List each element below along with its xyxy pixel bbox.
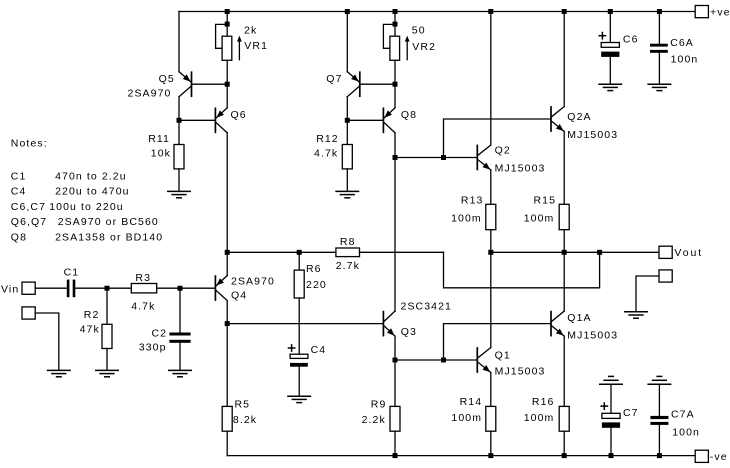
wire: +ve top supply rail	[179, 11, 695, 13]
wire: Q7 base to VR2 node	[360, 83, 395, 85]
svg-text:100m: 100m	[451, 212, 482, 224]
svg-text:2SA970: 2SA970	[128, 87, 172, 99]
svg-text:Q4: Q4	[231, 289, 247, 301]
ground under C2	[168, 369, 192, 371]
svg-text:330p: 330p	[139, 342, 167, 354]
svg-text:C1: C1	[11, 170, 27, 182]
wire: Q8 base	[347, 119, 383, 121]
node: bottom rail junction dots	[393, 453, 398, 458]
svg-text:100u to 220u: 100u to 220u	[49, 201, 124, 213]
wire: Q1A base feed	[444, 324, 551, 360]
+ve terminal	[695, 6, 708, 18]
transistor Q7	[359, 72, 361, 96]
wire: Q2A base feed	[444, 119, 551, 158]
wire: output rail	[491, 251, 659, 253]
node: Q3 emitter junction	[393, 358, 398, 363]
ground under C6A	[647, 83, 671, 85]
wire: Q4 collector down	[226, 301, 228, 324]
resistor R9 2.2k	[394, 360, 396, 406]
wire: Q6 base	[179, 119, 215, 121]
Vin terminal	[22, 282, 35, 294]
wire: Q8 emitter up to VR2 node	[394, 84, 396, 108]
node: VR2 wiper junction	[393, 22, 398, 27]
resistor R12 4.7k	[346, 120, 348, 144]
svg-text:C7: C7	[623, 407, 639, 419]
node: Q4 collector junction	[225, 321, 230, 326]
potentiometer VR2 50	[394, 24, 396, 36]
svg-text:100m: 100m	[524, 212, 555, 224]
wire: ground terminal lead	[636, 276, 659, 312]
svg-text:R14: R14	[460, 396, 483, 408]
svg-text:8.2k: 8.2k	[233, 414, 257, 426]
capacitor C6 (electrolytic)	[609, 12, 611, 43]
svg-text:2SA970: 2SA970	[231, 276, 275, 288]
ground at output	[624, 311, 648, 313]
svg-text:MJ15003: MJ15003	[495, 163, 546, 175]
resistor R11 10k	[178, 120, 180, 144]
wire: VAS node down to Q3 collector	[394, 158, 396, 312]
svg-text:C4: C4	[311, 344, 327, 356]
svg-text:R16: R16	[532, 396, 555, 408]
wire: -ve bottom supply rail	[227, 455, 695, 457]
wire: Q3 emitter node to Q1 base	[395, 359, 477, 361]
ground under C4	[287, 395, 311, 397]
svg-text:470n to 2.2u: 470n to 2.2u	[55, 170, 127, 182]
node: R15 output junction	[562, 250, 567, 255]
node: VR1 wiper junction	[225, 22, 230, 27]
svg-text:MJ15003: MJ15003	[567, 330, 618, 342]
svg-text:R15: R15	[534, 195, 557, 207]
VR2 adjust arrow	[406, 39, 408, 60]
svg-text:R2: R2	[84, 309, 100, 321]
resistor R16 100m	[559, 406, 569, 431]
wire: Q1A emitter to R16	[563, 336, 565, 406]
svg-text:Q3: Q3	[401, 326, 417, 338]
wire: VR1 wiper bypass	[216, 24, 228, 48]
svg-text:C4: C4	[11, 186, 27, 198]
resistor R13 100m	[486, 204, 496, 229]
svg-text:VR2: VR2	[412, 41, 436, 53]
resistor R3 4.7k	[131, 284, 156, 293]
svg-text:Q2A: Q2A	[567, 111, 591, 123]
svg-text:100m: 100m	[524, 412, 555, 424]
svg-text:2SA970 or BC560: 2SA970 or BC560	[58, 216, 159, 228]
node: Q5 collector / Q6 base junction	[177, 118, 182, 123]
wire: rail down to Q7 emitter	[346, 12, 348, 72]
transistor Q2 MJ15003	[476, 146, 478, 170]
wire: Q4 collector to Q3 base	[227, 323, 383, 325]
svg-text:MJ15003: MJ15003	[495, 365, 546, 377]
capacitor C7 (electrolytic)	[610, 384, 612, 413]
resistor R8 2.7k	[336, 248, 360, 257]
ground under R11	[167, 190, 191, 192]
input ground terminal	[22, 307, 35, 319]
svg-text:Vout: Vout	[674, 247, 703, 259]
node: Q4 emitter junction	[225, 250, 230, 255]
ground return terminal	[659, 270, 672, 282]
ground at input terminal	[47, 369, 71, 371]
wire: Q1A collector to output rail	[563, 252, 565, 311]
node: VR2 bottom junction	[393, 82, 398, 87]
svg-text:R5: R5	[235, 398, 251, 410]
svg-text:Notes:: Notes:	[11, 138, 48, 150]
wire: rail to VR2	[394, 12, 396, 25]
VR1 adjust arrow	[238, 39, 240, 60]
svg-text:MJ15003: MJ15003	[567, 129, 618, 141]
svg-text:C6,C7: C6,C7	[11, 201, 46, 213]
transistor Q5 2SA970	[191, 72, 193, 96]
svg-text:100n: 100n	[671, 53, 699, 65]
svg-text:4.7k: 4.7k	[131, 301, 155, 313]
svg-text:2SC3421: 2SC3421	[401, 300, 452, 312]
svg-text:2k: 2k	[244, 25, 257, 37]
ground above C7A	[647, 383, 671, 385]
transistor Q6	[214, 108, 216, 132]
svg-text:C6A: C6A	[670, 37, 694, 49]
wire: Q2A collector to rail	[563, 12, 565, 107]
capacitor C7A 100n	[658, 384, 660, 416]
svg-text:R8: R8	[340, 236, 356, 248]
svg-text:Q2: Q2	[495, 145, 511, 157]
svg-text:2SA1358 or BD140: 2SA1358 or BD140	[55, 231, 163, 243]
wire: Q6 collector long drop	[226, 133, 228, 253]
node: R6 top junction	[297, 250, 302, 255]
wire: Q5 collector down	[178, 97, 180, 121]
node: feedback takeoff junction	[597, 250, 602, 255]
svg-text:Q8: Q8	[401, 109, 417, 121]
node: R2 top junction	[105, 286, 110, 291]
node: R13 output junction	[488, 250, 493, 255]
svg-text:+ve: +ve	[710, 6, 730, 18]
transistor Q1A MJ15003	[550, 312, 552, 336]
-ve terminal	[695, 450, 708, 462]
node: VR1 bottom junction	[225, 82, 230, 87]
wire: input ground lead	[35, 313, 59, 370]
Vout terminal	[659, 246, 672, 258]
svg-text:R3: R3	[135, 272, 151, 284]
capacitor C1	[67, 280, 70, 298]
ground under R2	[95, 369, 119, 371]
wire: Vin to C1	[35, 287, 67, 289]
resistor R5 8.2k	[226, 324, 228, 407]
transistor Q8	[382, 108, 384, 132]
wire: Q2 emitter to R13	[490, 170, 492, 204]
wire: Q1 collector to output rail	[490, 252, 492, 347]
svg-text:100m: 100m	[451, 412, 482, 424]
node: VAS output node	[393, 155, 398, 160]
wire: C1 to R3	[75, 287, 131, 289]
svg-text:50: 50	[412, 25, 426, 37]
svg-text:-ve: -ve	[710, 451, 728, 463]
resistor R15 100m	[559, 204, 569, 229]
transistor Q1 MJ15003	[476, 348, 478, 372]
svg-text:R12: R12	[316, 133, 339, 145]
svg-text:Q5: Q5	[159, 73, 175, 85]
svg-text:Q1A: Q1A	[567, 312, 591, 324]
node: rail junction dots	[225, 9, 230, 14]
svg-text:C6: C6	[623, 33, 639, 45]
svg-text:47k: 47k	[80, 324, 100, 336]
ground above C7	[599, 383, 623, 385]
node: C2 top junction	[178, 286, 183, 291]
svg-text:2.2k: 2.2k	[362, 414, 386, 426]
svg-text:100n: 100n	[672, 426, 700, 438]
wire: R3 to Q4 base	[157, 287, 215, 289]
wire: Q8 collector down to VAS node	[394, 133, 396, 158]
wire: Q7 collector down	[346, 97, 348, 121]
resistor R2 47k	[106, 288, 108, 324]
node: Q7 collector / Q8 base junction	[345, 118, 350, 123]
svg-text:R13: R13	[461, 195, 484, 207]
svg-text:Q6,Q7: Q6,Q7	[11, 216, 47, 228]
ground under C6	[598, 83, 622, 85]
wire: Q5 base to VR1 node	[192, 83, 227, 85]
svg-text:2.7k: 2.7k	[336, 260, 360, 272]
svg-text:220: 220	[306, 279, 327, 291]
potentiometer VR1 2k	[226, 24, 228, 36]
capacitor C4 (electrolytic)	[288, 347, 296, 349]
svg-text:4.7k: 4.7k	[314, 147, 338, 159]
svg-text:Q8: Q8	[11, 231, 27, 243]
resistor R6 220	[298, 252, 300, 270]
wire: rail down to Q5 emitter	[178, 12, 180, 72]
wire: Q4 emitter node to R8	[227, 251, 336, 253]
svg-text:C7A: C7A	[671, 409, 695, 421]
transistor Q2A MJ15003	[550, 107, 552, 131]
wire: Q4 emitter up	[226, 252, 228, 275]
capacitor C2 330p	[179, 288, 181, 332]
svg-text:Q6: Q6	[231, 109, 247, 121]
transistor Q3 2SC3421	[382, 312, 384, 336]
wire: Q6 emitter up to VR1 node	[226, 84, 228, 108]
wire: Q3 emitter down	[394, 336, 396, 360]
svg-text:Q1: Q1	[495, 350, 511, 362]
resistor R14 100m	[486, 406, 496, 431]
svg-text:C1: C1	[64, 267, 80, 279]
transistor Q4 2SA970	[214, 276, 216, 300]
svg-text:220u to 470u: 220u to 470u	[55, 186, 130, 198]
node: Q2/Q2A base junction	[441, 155, 446, 160]
svg-text:10k: 10k	[151, 147, 171, 159]
svg-text:R9: R9	[371, 398, 387, 410]
ground under R12	[335, 190, 359, 192]
wire: feedback jog	[444, 252, 600, 287]
svg-text:R11: R11	[148, 133, 170, 145]
svg-text:Vin: Vin	[1, 284, 19, 296]
svg-text:Q7: Q7	[326, 73, 342, 85]
wire: rail to VR1	[226, 12, 228, 25]
wire: VAS node to Q2 base	[395, 157, 477, 159]
svg-text:R6: R6	[306, 263, 322, 275]
node: Q1/Q1A base junction	[441, 358, 446, 363]
wire: Q2 collector to rail	[490, 12, 492, 146]
capacitor C6A 100n	[658, 12, 660, 44]
svg-text:VR1: VR1	[244, 40, 268, 52]
wire: Q2A emitter to R15	[563, 132, 565, 205]
wire: VR2 wiper bypass	[383, 24, 395, 48]
wire: Q1 emitter to R14	[490, 373, 492, 407]
svg-text:C2: C2	[152, 327, 168, 339]
